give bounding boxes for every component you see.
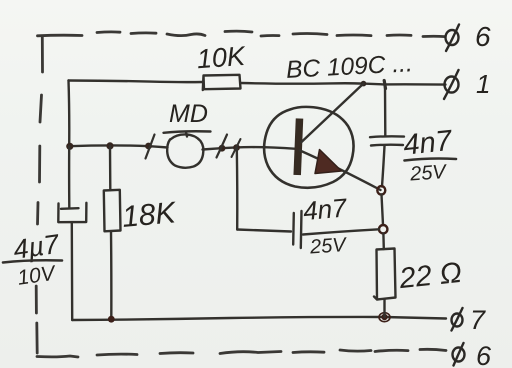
svg-text:25V: 25V bbox=[408, 161, 448, 186]
wire emitter node down to cap node bbox=[382, 195, 384, 226]
capacitor 4n7/25V top plate bbox=[370, 135, 404, 138]
slash mark left bbox=[146, 135, 155, 159]
right branch wire (top to cap 4n7) bbox=[384, 85, 387, 136]
transistor Q1 emitter arrow bbox=[315, 150, 342, 174]
capacitor 4u7 top plate bbox=[61, 207, 79, 210]
wire cap to emitter node bbox=[382, 146, 385, 187]
wire 4u7 bottom lead bbox=[71, 222, 74, 320]
junction dot 22R bottom bbox=[379, 313, 390, 322]
svg-text:4n7: 4n7 bbox=[302, 192, 349, 226]
transistor Q1 body circle bbox=[264, 107, 353, 188]
svg-text:18K: 18K bbox=[121, 196, 179, 234]
svg-text:6: 6 bbox=[476, 341, 492, 368]
slash mark right bbox=[232, 139, 241, 157]
junction dot collector/top-wire bbox=[361, 81, 367, 87]
terminal pin 6 (top) bbox=[446, 25, 460, 52]
terminal pin 7 bbox=[452, 308, 463, 331]
bottom rail wire bbox=[72, 317, 446, 320]
resistor 22R body bbox=[374, 249, 396, 300]
node circle coupling cap junction bbox=[379, 225, 387, 233]
slash mark mid bbox=[217, 135, 228, 158]
base rail wire (left to MD) bbox=[69, 145, 167, 147]
microphone MD membrane line bbox=[164, 131, 211, 133]
wire tap down from base rail to coupling cap bbox=[236, 148, 239, 230]
svg-text:MD: MD bbox=[169, 100, 208, 128]
microphone MD tick bbox=[186, 132, 187, 137]
terminal pin 6 (bottom) bbox=[453, 343, 465, 366]
terminal pin 1 bbox=[444, 70, 459, 99]
branch tick at top of right capacitor bbox=[384, 81, 385, 89]
wire 18K top lead bbox=[109, 146, 112, 190]
svg-text:25V: 25V bbox=[308, 234, 348, 259]
microphone MD body circle bbox=[167, 134, 203, 167]
node circle emitter junction bbox=[377, 186, 385, 194]
wire 22R bottom lead bbox=[383, 300, 385, 318]
junction dot node left rail bbox=[66, 143, 73, 150]
transistor Q1 emitter line bbox=[300, 151, 381, 191]
wire cap node to 22R bbox=[382, 234, 385, 250]
resistor R 10K body bbox=[203, 75, 241, 90]
junction dot (tap to 4n7 coupling cap) bbox=[233, 144, 240, 151]
capacitor 4n7/25V bottom plate bbox=[371, 143, 403, 146]
svg-text:22 Ω: 22 Ω bbox=[397, 257, 463, 295]
junction dot 18K bottom bbox=[108, 316, 115, 323]
svg-text:7: 7 bbox=[470, 305, 486, 335]
top wire (left segment to 10K) bbox=[69, 81, 204, 83]
svg-text:1: 1 bbox=[476, 69, 490, 99]
left vertical wire (top corner down to base rail) bbox=[67, 81, 70, 147]
shield dashed border: top bbox=[38, 31, 446, 36]
shield dashed border: left bbox=[36, 37, 42, 354]
fraction bar 4n7/25V bbox=[405, 159, 457, 161]
svg-text:10K: 10K bbox=[196, 41, 247, 74]
capacitor 4u7 cup bbox=[58, 203, 86, 222]
wire to coupling cap left plate bbox=[237, 230, 291, 232]
junction dot 18K top bbox=[106, 142, 113, 149]
fraction bar 4u7/10V bbox=[3, 260, 62, 262]
wire coupling cap to emitter branch bbox=[303, 229, 379, 234]
svg-text:4n7: 4n7 bbox=[402, 125, 455, 162]
capacitor C 4n7 coupling right plate bbox=[300, 211, 303, 248]
junction dot with slash (shield tap left) bbox=[145, 143, 152, 150]
wire 4u7 top lead bbox=[68, 146, 71, 207]
capacitor C 4n7 coupling left plate bbox=[292, 213, 295, 245]
transistor Q1 base bar bbox=[297, 119, 299, 176]
wire MD to transistor base bbox=[203, 147, 297, 149]
junction dot with slash (right of MD) bbox=[219, 145, 226, 152]
top wire (10K to pin 1) bbox=[241, 83, 446, 85]
resistor 18K body bbox=[104, 190, 121, 232]
shield dashed border: bottom bbox=[37, 349, 446, 357]
svg-text:6: 6 bbox=[475, 21, 491, 52]
transistor Q1 collector line bbox=[302, 84, 364, 143]
wire 18K bottom lead bbox=[110, 231, 113, 319]
